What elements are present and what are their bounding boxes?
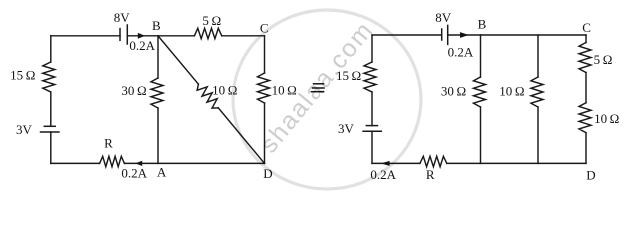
wire resistor R to node A and node D [124, 162, 264, 164]
resistor R (left circuit, bottom wire) [100, 156, 125, 166]
battery 3V right circuit: long plate [363, 130, 381, 132]
svg-text:B: B [478, 17, 487, 32]
wire 3V battery to bottom-left corner right circuit [371, 131, 373, 163]
battery 8V left circuit: short plate [119, 29, 121, 41]
svg-text:0.2A: 0.2A [370, 167, 396, 182]
battery 3V left circuit: short plate [44, 125, 55, 127]
svg-text:A: A [157, 165, 167, 180]
wire left-circuit top: corner to 8V battery [51, 35, 120, 37]
wire 10-ohm down to node D [264, 103, 266, 163]
current arrow 0.2A right circuit top (pointing right) [460, 32, 469, 38]
resistor 15 ohm (right circuit) [364, 62, 376, 92]
svg-text:0.2A: 0.2A [121, 166, 147, 181]
svg-text:15 Ω: 15 Ω [336, 68, 361, 83]
wire node B down to 30-ohm right circuit [480, 35, 482, 77]
resistor R (right circuit, bottom wire) [420, 156, 447, 166]
svg-text:C: C [582, 20, 591, 35]
battery 8V right circuit: long plate [447, 25, 449, 44]
battery 8V right circuit: short plate [441, 29, 443, 40]
svg-text:D: D [263, 166, 272, 181]
wire middle branch top to 10-ohm right circuit [537, 35, 539, 77]
wire 30-ohm to bottom wire right circuit [480, 107, 482, 163]
resistor 30 ohm (left circuit, B to A) [151, 78, 163, 108]
wire node C down to 5-ohm right circuit [585, 35, 587, 43]
resistor 10 ohm (left circuit, diagonal B to D) [197, 84, 218, 108]
svg-text:30 Ω: 30 Ω [121, 83, 146, 98]
wire right-circuit top: corner to 8V battery [372, 34, 442, 36]
wire battery to node B [127, 35, 158, 37]
wire 15-ohm to 3V battery [50, 92, 52, 126]
svg-text:10 Ω: 10 Ω [499, 84, 524, 99]
wire left-circuit left branch upper (corner to 15-ohm) [50, 36, 52, 62]
watermark circle [233, 10, 421, 189]
wire bottom-left corner to resistor R [51, 162, 100, 164]
resistor 10 ohm (left circuit, C to D) [258, 73, 270, 103]
wire 5-ohm to 10-ohm right circuit [585, 73, 587, 103]
wire 30-ohm down to node A [157, 108, 159, 163]
wire 10-ohm to bottom wire middle branch [537, 107, 539, 163]
wire right-circuit left branch upper [371, 35, 373, 62]
svg-text:15 Ω: 15 Ω [10, 68, 35, 83]
svg-text:5 Ω: 5 Ω [594, 52, 613, 67]
current arrow 0.2A left circuit bottom (pointing left) [135, 161, 142, 166]
wire node B down to 30-ohm [157, 36, 159, 78]
svg-text:R: R [426, 167, 435, 182]
wire resistor R to node D right circuit [447, 162, 586, 164]
resistor 5 ohm (right circuit, C-D branch) [579, 43, 591, 73]
battery 8V left circuit: long plate [126, 25, 128, 44]
wire diagonal node B to 10-ohm [158, 36, 198, 84]
resistor 15 ohm (left circuit) [43, 62, 55, 92]
wire 3V battery to bottom-left corner [50, 132, 52, 163]
svg-text:B: B [152, 18, 161, 33]
battery 3V right circuit: short plate [366, 125, 377, 127]
svg-text:0.2A: 0.2A [448, 45, 474, 60]
wire node C down to 10-ohm [264, 36, 266, 73]
svg-text:D: D [586, 168, 595, 183]
svg-text:8V: 8V [435, 10, 452, 25]
svg-text:8V: 8V [114, 10, 131, 25]
wire 5-ohm resistor to node C [222, 35, 265, 37]
wire node B to node C right circuit [481, 34, 587, 36]
resistor 10 ohm (right circuit, C-D branch lower) [579, 103, 591, 133]
battery 3V left circuit: long plate [41, 131, 59, 133]
svg-text:R: R [104, 136, 113, 151]
wire node B to 5-ohm resistor [158, 35, 194, 37]
svg-text:10 Ω: 10 Ω [212, 83, 237, 98]
resistor 10 ohm (right circuit, middle branch) [531, 77, 543, 107]
svg-text:10 Ω: 10 Ω [272, 83, 297, 98]
wire bottom-left corner to resistor R right circuit [372, 162, 420, 164]
equivalence symbol [311, 84, 325, 92]
svg-text:5 Ω: 5 Ω [202, 13, 221, 28]
wire 15-ohm to 3V battery right circuit [371, 92, 373, 126]
svg-text:3V: 3V [16, 122, 33, 137]
current arrow 0.2A right circuit bottom (pointing left) [381, 161, 390, 166]
resistor 5 ohm (left circuit, top wire B-C) [194, 28, 221, 38]
wire diagonal 10-ohm to node D [218, 108, 264, 163]
resistor 30 ohm (right circuit) [474, 77, 486, 107]
svg-text:3V: 3V [338, 121, 355, 136]
svg-text:10 Ω: 10 Ω [594, 111, 619, 126]
svg-text:C: C [260, 21, 269, 36]
current arrow 0.2A left circuit top (pointing right) [138, 33, 145, 39]
wire battery to node B right circuit [448, 34, 481, 36]
wire 10-ohm down to node D right circuit [585, 133, 587, 164]
svg-text:0.2A: 0.2A [129, 38, 155, 53]
svg-text:30 Ω: 30 Ω [441, 84, 466, 99]
